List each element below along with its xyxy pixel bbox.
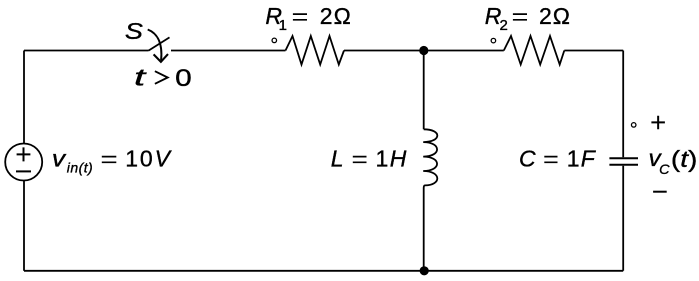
svg-text:t: t [134,65,147,92]
svg-text:2Ω: 2Ω [320,3,352,29]
svg-text:C: C [519,146,536,172]
svg-text:v: v [52,146,67,172]
svg-text:S: S [125,18,144,44]
svg-text:C: C [659,161,670,177]
svg-text:10V: 10V [125,146,172,172]
svg-text:1: 1 [279,17,287,34]
svg-text:1H: 1H [376,146,408,172]
svg-text:1F: 1F [567,146,597,172]
svg-text:L: L [331,146,344,172]
svg-text:0: 0 [175,65,192,92]
svg-text:2Ω: 2Ω [539,3,571,29]
svg-text:2: 2 [500,17,508,34]
svg-text:in(t): in(t) [67,160,93,176]
svg-text:(t): (t) [671,146,698,172]
